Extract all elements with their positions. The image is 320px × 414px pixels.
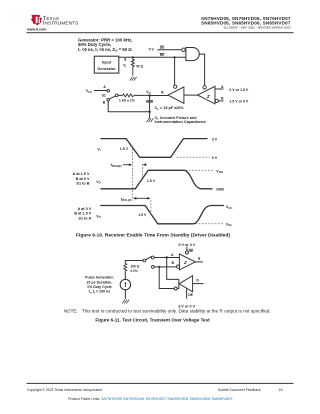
VOL dashed level (196, 222, 233, 227)
receiver U2 triangle fig 6-11 (179, 254, 195, 270)
nand gate U1 (182, 48, 199, 61)
VI probe arrow (123, 58, 126, 69)
driver inverting output bubble (174, 287, 177, 290)
ground below 50 ohm (130, 69, 137, 81)
driver Z triangle (disabled driver) (198, 86, 215, 104)
TEXAS INSTRUMENTS wordmark (43, 16, 79, 26)
waveform VO (enable to low) (96, 206, 224, 224)
dashed vertical at VO rise crossing (141, 164, 143, 180)
wire node A to driver output (167, 258, 179, 280)
driver output bar (177, 279, 179, 288)
wire contact B down and right (108, 101, 149, 112)
RE pin wire and bubble (185, 247, 194, 254)
tPZL(2) measure (121, 196, 151, 202)
wire receiver to driver (184, 94, 198, 96)
DE pin wire (187, 288, 194, 298)
switch S1 (102, 85, 118, 104)
dashed vertical at VO fall crossing (150, 200, 152, 215)
waveform 3 left condition labels (74, 207, 92, 221)
wire node B to driver inverting output (159, 267, 174, 289)
DE wire (157, 46, 181, 50)
tPZH(2) measure (111, 162, 147, 168)
switch S2 fig 6-11 (143, 256, 154, 268)
driver output stub B with bubble (215, 97, 249, 104)
svg-text:Product Folder Links: SN75HVD0: Product Folder Links: SN75HVD05 SN75HVD0… (68, 397, 233, 401)
driver output stub A (215, 85, 249, 92)
resistor 100 ohm (124, 264, 140, 274)
VI low dashed level (177, 156, 218, 160)
receiver R triangle (161, 87, 184, 103)
node on RE wire (174, 56, 176, 58)
driver U3 triangle fig 6-11 (179, 276, 193, 292)
input generator box (94, 56, 119, 73)
node VO (146, 90, 151, 97)
node B junction (158, 266, 160, 268)
waveform VI (97, 139, 207, 158)
generator spec text (78, 38, 132, 53)
resistor 1 kohm (118, 94, 150, 103)
wire VO to receiver (150, 95, 168, 97)
receiver enable wire from RE node (174, 57, 176, 85)
gate output wire to driver enable (199, 54, 204, 85)
pulse generator source (120, 271, 130, 289)
wire switch to resistor (125, 261, 143, 264)
wire generator to gate (RE net) (119, 56, 186, 58)
bus wire B with receiver input bubble (154, 261, 180, 268)
D input wire (193, 279, 204, 284)
node A junction (166, 256, 168, 258)
pulse generator text block (85, 276, 114, 295)
waveform VO (enable to high) (96, 170, 212, 189)
node at 50 ohm tap (132, 56, 134, 58)
footer rule (27, 383, 294, 384)
svg-text:Submit Document Feedback: Submit Document Feedback (218, 388, 261, 392)
receiver enable bubble (174, 85, 177, 88)
node below capacitor (148, 111, 150, 113)
header rule (27, 32, 294, 33)
capacitor CL (146, 96, 153, 112)
ground below pulse generator (122, 290, 129, 304)
VOH dashed level (186, 169, 223, 174)
wire VCC to contact A (94, 90, 107, 92)
svg-text:SN65HVD05, SN65HVD06, SN65HVD0: SN65HVD05, SN65HVD06, SN65HVD07 (201, 21, 291, 26)
R output wire (195, 257, 203, 262)
ground below capacitor (146, 112, 153, 123)
waveform 2 left condition labels (73, 172, 90, 186)
resistor 50 ohm (131, 57, 143, 69)
dashed vertical at VI crossing (132, 149, 134, 201)
bus wire A (154, 253, 179, 258)
TI logo red bug (31, 15, 42, 25)
